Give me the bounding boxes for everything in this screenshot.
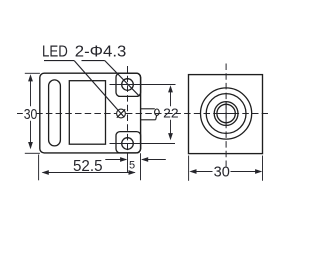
dimension 30 right: extension lines bbox=[189, 156, 263, 181]
dimension 22: down arrow bbox=[168, 133, 173, 140]
dimension 30 right: right arrow bbox=[255, 169, 262, 174]
svg-text:30: 30 bbox=[214, 163, 230, 180]
dimension 5: right-pointing arrow bbox=[120, 157, 127, 162]
svg-text:LED: LED bbox=[42, 44, 68, 61]
left view bottom mounting ear bbox=[116, 132, 141, 153]
svg-text:22: 22 bbox=[163, 106, 179, 121]
right view center cross bbox=[217, 102, 234, 127]
right view body outline bbox=[189, 75, 263, 154]
left view top mounting ear bbox=[116, 73, 141, 96]
right view inner circle bbox=[217, 104, 235, 122]
right view vertical centerline bbox=[225, 64, 227, 167]
dimension 5: left-pointing arrow bbox=[141, 157, 148, 162]
dimension 5: dimension line segments bbox=[105, 159, 166, 161]
dimension 30 left: extension lines bbox=[25, 73, 40, 153]
centerline dash through 22 text bbox=[170, 113, 173, 115]
right view outer circle bbox=[201, 88, 252, 139]
dimension 22: up arrow bbox=[168, 85, 173, 92]
bottom mounting hole bbox=[122, 138, 134, 150]
svg-text:2-Φ4.3: 2-Φ4.3 bbox=[75, 44, 127, 61]
dimension 22: extension lines bbox=[110, 85, 176, 144]
dimension 52.5: left arrow bbox=[42, 170, 49, 175]
svg-text:5: 5 bbox=[129, 160, 135, 172]
right view second circle bbox=[206, 94, 246, 134]
left view label window rectangle bbox=[69, 81, 105, 145]
svg-text:52.5: 52.5 bbox=[73, 158, 103, 175]
leader line LED bbox=[44, 61, 124, 118]
connector stub cylinder bbox=[141, 109, 160, 120]
dimension 22: dimension line bbox=[170, 88, 172, 138]
dimension 52.5: extension lines bbox=[39, 153, 141, 180]
dimension 30 right: dimension line bbox=[191, 171, 261, 173]
dimension 52.5: right arrow bbox=[129, 170, 136, 175]
left view sensor body outline bbox=[40, 73, 141, 153]
centerline mounting holes vertical bbox=[127, 66, 129, 151]
dimension 52.5: dimension line bbox=[43, 172, 135, 174]
LED indicator circle with cross bbox=[117, 109, 126, 118]
svg-text:30: 30 bbox=[24, 106, 38, 123]
centerline horizontal main axis bbox=[17, 113, 268, 115]
dimension 30 left: dimension line bbox=[30, 77, 32, 147]
dimension 30 left: down arrow bbox=[28, 142, 33, 149]
dimension 30 left: up arrow bbox=[28, 74, 33, 81]
leader line 2-phi4.3 to top hole bbox=[82, 61, 140, 97]
right view third circle bbox=[214, 102, 238, 126]
dimension 30 right: left arrow bbox=[189, 169, 196, 174]
top mounting hole bbox=[122, 79, 134, 91]
left view mounting slot bbox=[49, 80, 61, 146]
